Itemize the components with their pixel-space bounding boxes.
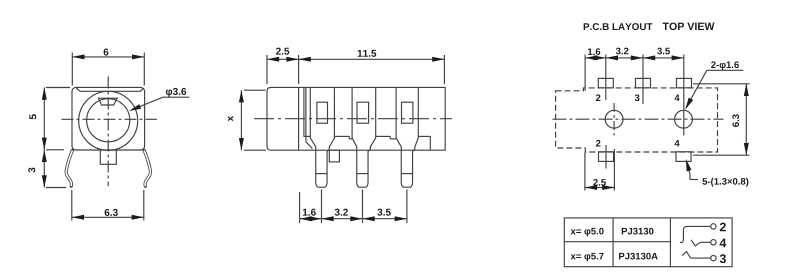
dimension 5 line — [43, 88, 45, 150]
dimension x extension lines — [244, 89, 266, 91]
label phi3.6 leader — [132, 97, 164, 110]
middle view slot window 1 — [317, 102, 328, 123]
pcb pin number 2 bottom — [596, 140, 601, 147]
middle view flange inner line — [298, 87, 300, 150]
pcb dimension 1.6 line — [585, 57, 606, 59]
left view left leg — [66, 150, 72, 186]
middle view contact 2 outline — [352, 87, 376, 187]
pcb dimension 3.2 text — [616, 48, 629, 55]
dimension 1.6 text — [303, 209, 316, 216]
left view notch — [98, 98, 117, 105]
title text — [584, 23, 653, 30]
dimension 6 line — [72, 56, 144, 58]
pcb pin number 4 top — [675, 94, 680, 101]
dimension 3.5 text — [377, 209, 390, 216]
pcb dimension 3.5 line — [643, 57, 684, 59]
schematic pin 4 contact — [701, 241, 711, 243]
middle view ledge gap1 — [334, 135, 349, 137]
dimension x text — [228, 116, 233, 121]
dimension 2.5 text — [276, 48, 289, 55]
pcb dashed outline — [556, 88, 718, 152]
dimension 3.2 line — [322, 218, 363, 220]
pcb dimension 6.3 extension lines — [693, 83, 750, 85]
pcb dimension 3.2 line — [606, 57, 643, 59]
middle view slot window 3 — [402, 102, 413, 123]
dimension 3 text — [28, 168, 35, 173]
dimension 11.5 line — [299, 58, 445, 60]
pcb top pad 2 — [636, 78, 651, 87]
bottom dims extension lines — [299, 192, 301, 223]
pcb vertical line pad3 — [642, 55, 644, 105]
schematic pin 2 label — [720, 223, 726, 232]
schematic pin 3 label — [720, 254, 726, 263]
pcb hole left — [605, 110, 623, 128]
middle view pin 1 tip line — [316, 173, 327, 175]
dimension 3.2 text — [335, 209, 348, 216]
dimension x line — [240, 90, 242, 150]
pcb top dims extension line — [584, 55, 586, 91]
pcb vertical line hole left — [613, 103, 615, 136]
pcb pin number 3 top — [635, 94, 640, 101]
dimension 2.5 extension lines — [266, 55, 268, 84]
label 2-phi1.6 leader — [707, 69, 744, 71]
schematic pin 4 terminal — [711, 240, 716, 245]
dimension 6.3 line — [72, 216, 144, 218]
schematic pin 2 terminal — [711, 224, 716, 229]
dimension 2.5 line — [267, 58, 299, 60]
pcb dimension 1.6 text — [588, 48, 600, 55]
pcb horizontal center line — [553, 118, 724, 120]
middle view ledge right end — [418, 135, 430, 137]
pcb top pad 3 — [677, 78, 692, 87]
middle view center line — [254, 118, 452, 120]
middle view body outline — [267, 87, 445, 150]
left view bottom tab — [100, 150, 116, 164]
table cell x=5.0 — [571, 228, 604, 237]
pcb bottom pad 1 — [599, 152, 614, 162]
middle view pin 3 tip line — [401, 173, 412, 175]
middle view contact 1 outline — [310, 87, 334, 187]
left view body — [72, 87, 145, 150]
dimension 6.3 extension lines — [71, 190, 73, 221]
pcb vertical line pad4 — [683, 55, 685, 136]
table cell x=5.7 — [571, 253, 604, 262]
left view outer circle — [79, 91, 138, 150]
middle view slot window 2 — [357, 102, 369, 123]
dimension 11.5 text — [358, 50, 377, 57]
label phi3.6 text — [166, 88, 186, 97]
left view top shelf line — [76, 88, 143, 92]
label 5-1.3x0.8 leader — [690, 179, 698, 181]
left view inner circle phi3.6 — [87, 99, 130, 142]
dimension 6.3 text — [105, 209, 118, 216]
pcb pin number 4 bottom — [675, 140, 680, 147]
pcb vertical line bottom pad2 — [605, 145, 607, 169]
table column divider 2 — [669, 218, 671, 267]
pcb dimension 3.5 text — [657, 48, 670, 55]
pcb vertical line pad2 — [605, 55, 607, 101]
dimension 6 extension lines — [71, 53, 73, 86]
pcb hole right — [675, 110, 693, 128]
dimension 3.5 line — [363, 218, 407, 220]
schematic pin 4 label — [720, 239, 727, 248]
schematic pin 3 contact — [691, 257, 711, 259]
pcb dimension 2.5 line — [585, 187, 615, 189]
dimension 6 text — [104, 49, 109, 56]
middle view pin 2 tip line — [357, 173, 368, 175]
dimension 11.5 extension line — [443, 55, 445, 84]
label 2-phi1.6 text — [711, 61, 739, 70]
dimension 1.6 line — [300, 218, 322, 220]
pcb pin number 2 top — [596, 94, 601, 101]
left view vertical center line — [107, 77, 109, 187]
pcb dimension 6.3 line — [745, 84, 747, 155]
pcb dimension 2.5 text — [593, 179, 606, 186]
left view right leg — [144, 150, 150, 186]
table row divider — [564, 241, 670, 243]
pcb top pad 1 — [598, 78, 613, 87]
schematic pin 2 contact — [680, 226, 711, 242]
table cell PJ3130 — [622, 228, 654, 235]
dimension 5 text — [29, 114, 36, 119]
middle view ledge left gap — [304, 135, 310, 137]
middle view flange corner chamfer — [306, 142, 313, 149]
table outer frame — [564, 218, 732, 267]
middle view step box — [329, 150, 339, 162]
middle view ledge gap2 — [376, 135, 391, 137]
pcb dimension 2.5 extension lines — [584, 153, 586, 191]
dimension 3 line — [43, 150, 45, 188]
table cell PJ3130A — [619, 253, 658, 260]
table column divider 1 — [612, 218, 614, 267]
middle view contact 3 outline — [396, 87, 418, 187]
left view horizontal center line — [62, 118, 158, 120]
pcb dimension 6.3 text — [732, 114, 739, 127]
pcb bottom pad 2 — [676, 152, 691, 162]
schematic pin 3 terminal — [711, 255, 716, 260]
middle view flange divider double line — [303, 87, 305, 136]
label 5-1.3x0.8 text — [702, 178, 748, 187]
dimension 5-3 extension lines — [46, 87, 70, 89]
